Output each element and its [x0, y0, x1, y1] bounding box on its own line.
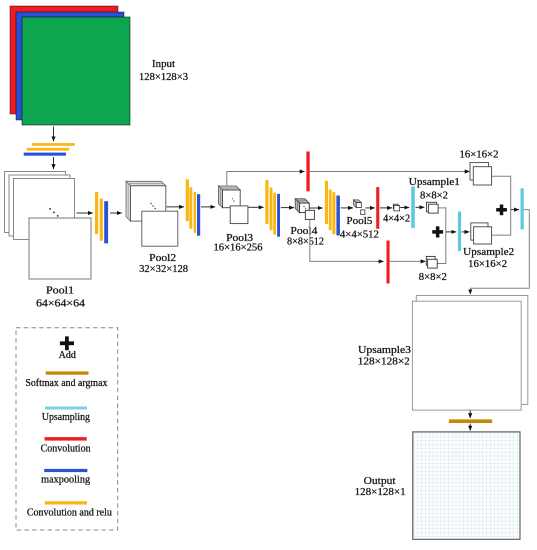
wire bars to Pool4	[281, 207, 294, 209]
wire softmax to output	[469, 424, 471, 431]
svg-text:Convolution and relu: Convolution and relu	[27, 507, 113, 518]
Upsample3 box	[412, 296, 527, 411]
svg-text:Pool5: Pool5	[346, 215, 372, 227]
svg-text:128×128×3: 128×128×3	[139, 71, 188, 83]
maxpool bar	[197, 194, 200, 236]
wire add1 to upsampling2	[446, 231, 456, 233]
label Input	[139, 58, 188, 83]
label Upsample1	[409, 176, 460, 201]
conv+relu bar	[194, 192, 197, 233]
svg-text:Pool2: Pool2	[149, 252, 176, 264]
wire conv to 8x8x2 lower cube	[390, 260, 426, 262]
conv+relu bar	[100, 199, 103, 241]
add2 plus	[496, 205, 507, 216]
svg-text:8×8×512: 8×8×512	[287, 236, 324, 248]
svg-text:128×128×1: 128×128×1	[355, 486, 406, 498]
label Pool3	[214, 232, 263, 254]
Pool4 feature maps	[290, 194, 314, 219]
svg-text:4×4×2: 4×4×2	[383, 213, 410, 224]
svg-text:Add: Add	[59, 350, 76, 361]
svg-text:Softmax and argmax: Softmax and argmax	[25, 378, 108, 389]
Pool5 feature maps	[354, 200, 365, 215]
wire upsampling3 to Upsample3 box	[470, 210, 529, 289]
wire conv to 16x16x2 box	[310, 171, 470, 173]
wire add2 to upsampling3 bar	[511, 209, 519, 211]
wire conv to 4x4x2 cube	[380, 207, 392, 209]
upsampling bar 3	[521, 188, 524, 229]
wire input to conv bars	[53, 127, 55, 142]
Pool3 feature maps	[219, 186, 248, 224]
maxpool bar	[24, 153, 66, 156]
wire Upsample3 to softmax	[469, 411, 471, 418]
label Pool4	[287, 225, 324, 248]
maxpool bar	[104, 201, 108, 243]
conv+relu bar	[332, 192, 335, 234]
input red channel	[10, 6, 118, 114]
svg-text:Upsampling: Upsampling	[42, 412, 91, 423]
svg-text:8×8×2: 8×8×2	[419, 272, 447, 283]
wire Pool2 to bars	[167, 206, 185, 208]
legend add plus	[60, 336, 74, 350]
conv+relu bar	[32, 143, 75, 146]
svg-text:Upsample3: Upsample3	[358, 344, 412, 356]
svg-text:32×32×128: 32×32×128	[139, 263, 188, 275]
wire upsampling to 8x8x2 cube	[416, 206, 425, 208]
convolution bar (skip 16x16)	[306, 152, 309, 192]
label Pool2	[139, 252, 188, 275]
svg-text:Convolution: Convolution	[41, 444, 92, 455]
legend maxpool bar	[44, 469, 87, 472]
svg-text:128×128×2: 128×128×2	[358, 356, 410, 368]
legend box	[16, 328, 118, 530]
svg-text:4×4×512: 4×4×512	[340, 228, 379, 240]
skip wire Pool3 to conv	[227, 172, 303, 186]
upsampling bar 2	[458, 212, 461, 252]
conv+relu bar	[27, 148, 69, 151]
svg-text:Input: Input	[152, 58, 175, 70]
label Upsample3	[358, 344, 412, 367]
wire bars to Pool1	[53, 157, 55, 169]
Upsample2 box	[471, 223, 492, 244]
legend conv+relu bar	[45, 501, 87, 504]
Pool2 feature maps	[126, 181, 178, 246]
svg-text:8×8×2: 8×8×2	[420, 191, 448, 202]
upsampling bar 1	[411, 187, 415, 229]
softmax/argmax bar	[449, 419, 492, 423]
convolution bar (skip 8x8)	[387, 241, 390, 284]
label Pool5	[340, 215, 379, 240]
Pool1 feature maps	[5, 172, 92, 280]
label Pool1	[36, 284, 86, 309]
conv+relu bar	[270, 188, 273, 231]
wire Pool5 to conv	[365, 207, 375, 209]
wire upsampling2 to Upsample2 box	[462, 231, 470, 233]
16x16x2 box top	[470, 163, 492, 185]
convolution bar (4x4)	[376, 187, 379, 229]
label Output	[355, 475, 406, 498]
svg-text:maxpooling: maxpooling	[41, 475, 91, 486]
conv+relu bar	[329, 190, 332, 231]
input green channel	[22, 17, 130, 125]
conv+relu bar	[95, 192, 98, 234]
legend upsampling bar	[45, 407, 87, 410]
wire Pool1 to bars	[77, 212, 93, 214]
svg-text:Upsample1: Upsample1	[409, 176, 460, 188]
wire bars to Pool5	[341, 207, 353, 209]
conv+relu bar	[325, 181, 328, 224]
wire bars to Pool2	[110, 212, 122, 214]
wire cube to upsampling	[400, 207, 409, 209]
svg-text:16×16×256: 16×16×256	[214, 242, 263, 254]
label Upsample2	[463, 246, 514, 270]
conv+relu bar	[189, 187, 192, 228]
cube 4x4x2	[393, 204, 399, 211]
svg-text:16×16×2: 16×16×2	[460, 150, 499, 161]
legend convolution bar	[45, 437, 87, 441]
skip wire Pool4 to conv	[310, 220, 382, 262]
svg-text:64×64×64: 64×64×64	[36, 297, 86, 309]
conv+relu bar	[273, 193, 276, 235]
conv+relu bar	[265, 180, 268, 224]
add1 plus	[432, 226, 443, 237]
output grid box	[413, 432, 520, 539]
conv+relu bar	[186, 179, 189, 221]
legend softmax bar	[46, 371, 89, 374]
wire Pool3 to bars	[248, 206, 263, 208]
cube 8x8x2 upper	[426, 202, 438, 213]
svg-text:Upsample2: Upsample2	[463, 246, 514, 258]
wire cubes to add1 junction	[437, 208, 445, 264]
wire bars to Pool3	[201, 206, 215, 208]
maxpool bar	[277, 194, 280, 237]
input blue channel	[16, 12, 124, 120]
svg-text:16×16×2: 16×16×2	[468, 259, 507, 270]
maxpool bar	[336, 196, 340, 236]
wire Pool4 to bars	[310, 207, 323, 209]
cube 8x8x2 lower	[426, 256, 437, 268]
wire 16box and Upsample2 to add2	[492, 176, 511, 235]
svg-text:Pool1: Pool1	[46, 284, 74, 296]
